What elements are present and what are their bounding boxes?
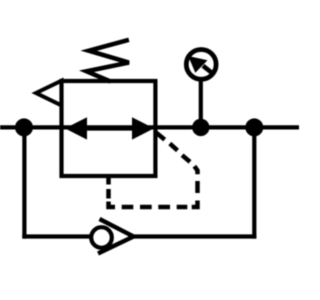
spring (pressure adjustment) xyxy=(87,40,129,82)
flow-path double arrow inside valve body xyxy=(65,117,154,139)
wire: left bypass drop xyxy=(22,127,26,238)
node B (gauge junction) xyxy=(192,119,209,136)
valve body (regulator envelope) xyxy=(62,81,156,176)
wire: bottom bypass left segment xyxy=(22,234,92,238)
pilot line (dashed): valve outlet sense to bottom, drawn dash-by-dash xyxy=(109,133,198,208)
node C (right junction) xyxy=(245,118,263,136)
wire: bottom bypass right segment xyxy=(132,234,256,238)
vent triangle (relief port) xyxy=(36,81,62,106)
wire: right bypass riser xyxy=(252,127,256,238)
wire: main flow line xyxy=(0,125,299,129)
pressure gauge G1 xyxy=(186,50,216,80)
node A (left junction) xyxy=(15,118,33,136)
wire: gauge stem xyxy=(199,78,203,127)
check valve V1 (circle on seat) xyxy=(91,219,133,254)
